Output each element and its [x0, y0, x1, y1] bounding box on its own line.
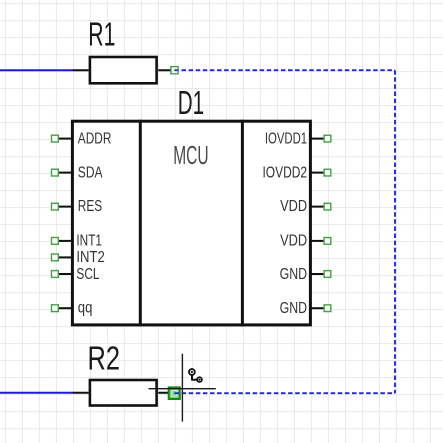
- svg-text:SCL: SCL: [76, 264, 99, 282]
- svg-text:VDD: VDD: [280, 198, 307, 216]
- svg-text:SDA: SDA: [78, 163, 103, 181]
- svg-text:R2: R2: [88, 340, 121, 377]
- svg-text:ADDR: ADDR: [78, 129, 112, 147]
- svg-text:GND: GND: [280, 300, 307, 318]
- svg-text:IOVDD2: IOVDD2: [262, 163, 307, 181]
- svg-text:VDD: VDD: [280, 232, 307, 250]
- svg-text:qq: qq: [78, 299, 93, 317]
- svg-text:R1: R1: [88, 16, 115, 53]
- svg-text:INT1: INT1: [76, 231, 102, 249]
- svg-text:RES: RES: [78, 196, 102, 214]
- svg-text:D1: D1: [178, 84, 204, 121]
- svg-text:IOVDD1: IOVDD1: [265, 129, 307, 147]
- svg-text:MCU: MCU: [173, 142, 208, 170]
- svg-text:GND: GND: [280, 265, 307, 283]
